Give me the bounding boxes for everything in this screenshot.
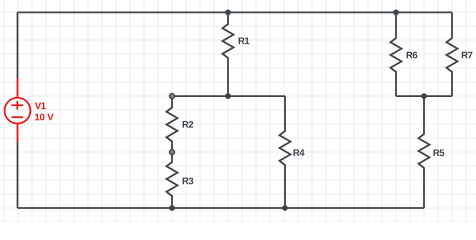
resistor R4 (280, 96, 291, 208)
junction dot top rail / R6 (393, 9, 399, 15)
junction dot top rail / R1 (225, 9, 231, 15)
resistor R2 (167, 96, 178, 152)
resistor R1 (223, 12, 234, 96)
label R4 (294, 149, 305, 156)
label R1 (239, 38, 250, 45)
wire middle rail node A (172, 95, 285, 97)
label V1 (35, 103, 46, 110)
wire left lower segment (17, 142, 19, 208)
label R6 (407, 52, 418, 59)
value 10 V (35, 114, 54, 121)
resistor R6 (391, 12, 402, 96)
label R3 (183, 178, 194, 185)
node terminal ring R2 top (169, 94, 174, 99)
V1 top lead (17, 78, 19, 98)
wire top rail (18, 11, 453, 13)
label R2 (183, 121, 194, 128)
resistor R7 (447, 12, 458, 96)
V1 plus sign (11, 101, 23, 110)
label R5 (434, 149, 445, 156)
junction dot middle rail / R1 bottom (225, 93, 231, 99)
wire bottom rail (18, 207, 425, 209)
junction dot bottom rail / R4 (282, 205, 288, 211)
junction dot parallel bottom / R5 top (421, 93, 427, 99)
V1 minus sign (11, 116, 23, 118)
resistor R5 (419, 96, 430, 208)
wire left upper segment (17, 12, 19, 78)
V1 bottom lead (17, 123, 19, 142)
V1 circle body (5, 98, 31, 124)
resistor R3 (167, 152, 178, 208)
wire parallel bottom (R6/R7 to R5) (396, 95, 452, 97)
node terminal ring R2/R3 junction (169, 150, 174, 155)
voltage source V1 (5, 78, 31, 142)
label R7 (462, 52, 473, 59)
junction dot bottom rail / R3 (169, 205, 175, 211)
